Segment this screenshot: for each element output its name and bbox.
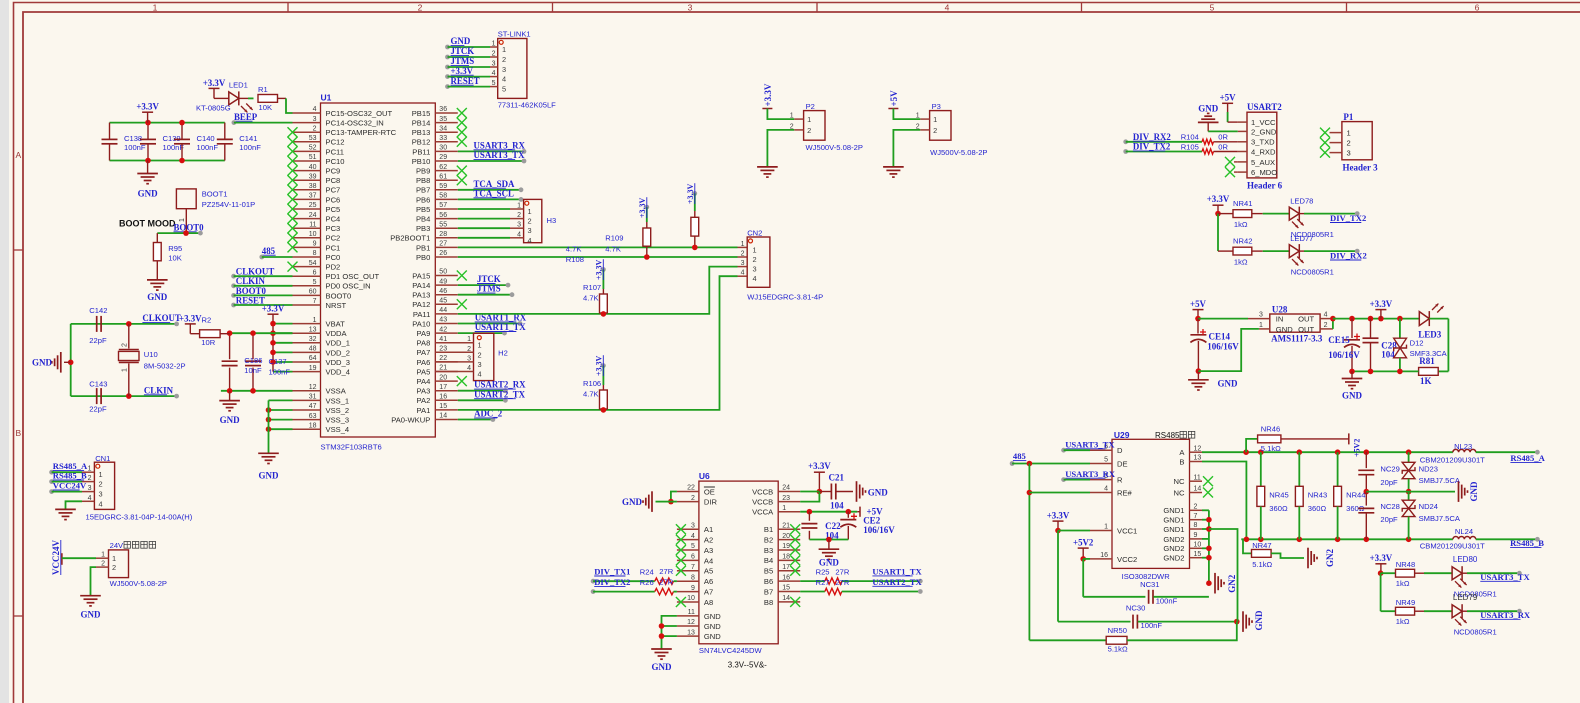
svg-text:15: 15 [439,403,447,410]
svg-text:R27: R27 [816,578,830,587]
svg-text:+3.3V: +3.3V [262,304,285,314]
svg-text:1_VCC: 1_VCC [1251,118,1276,127]
svg-text:PB15: PB15 [412,109,431,118]
svg-text:NC30: NC30 [1126,603,1145,612]
svg-text:GND1: GND1 [1163,525,1184,534]
svg-text:24: 24 [309,212,317,219]
svg-text:+3.3V: +3.3V [1370,299,1393,309]
svg-text:GND: GND [1342,391,1363,401]
svg-text:14: 14 [782,595,790,602]
svg-text:CLKIN: CLKIN [144,385,174,395]
svg-text:NR42: NR42 [1233,237,1252,246]
svg-text:GND2: GND2 [1163,544,1184,553]
svg-text:10K: 10K [168,254,182,263]
svg-text:PC0: PC0 [326,253,341,262]
svg-text:44: 44 [439,307,447,314]
svg-text:B6: B6 [764,577,773,586]
svg-text:7: 7 [1194,513,1198,520]
svg-text:GND: GND [1218,379,1239,389]
svg-text:4: 4 [313,106,317,113]
svg-text:30: 30 [439,145,447,152]
svg-text:21: 21 [782,522,790,529]
svg-text:1: 1 [782,505,786,512]
svg-text:61: 61 [439,173,447,180]
svg-text:TCA_SDA: TCA_SDA [474,179,516,189]
svg-text:3: 3 [492,61,496,68]
svg-text:4: 4 [478,370,482,379]
svg-text:PC4: PC4 [326,215,341,224]
svg-text:39: 39 [309,173,317,180]
svg-text:100nF: 100nF [269,367,291,376]
svg-text:17: 17 [439,384,447,391]
svg-text:1: 1 [1347,129,1351,138]
svg-text:A5: A5 [704,567,713,576]
svg-text:4: 4 [945,2,950,12]
svg-text:GND: GND [1276,325,1293,334]
svg-text:3_TXD: 3_TXD [1251,138,1275,147]
svg-text:A: A [15,150,21,160]
svg-text:VDD_4: VDD_4 [326,368,350,377]
svg-text:GND: GND [451,36,471,46]
svg-text:PB3: PB3 [416,224,430,233]
svg-text:2: 2 [502,55,506,64]
svg-text:11: 11 [688,609,695,616]
svg-text:485: 485 [262,246,276,256]
svg-text:OE: OE [704,487,715,496]
svg-text:4: 4 [88,495,92,502]
svg-text:+3.3V: +3.3V [1047,510,1070,520]
svg-text:25: 25 [309,202,317,209]
svg-text:NC31: NC31 [1140,580,1159,589]
svg-text:PD2: PD2 [326,263,341,272]
svg-text:14: 14 [439,413,447,420]
svg-text:RS485_B: RS485_B [1510,538,1544,548]
svg-text:U1: U1 [321,93,332,103]
svg-text:BEEP: BEEP [234,112,258,122]
svg-text:4.7K: 4.7K [605,244,621,253]
svg-text:PA14: PA14 [412,281,430,290]
svg-text:LED79: LED79 [1453,593,1478,602]
svg-text:GND: GND [1469,481,1479,502]
svg-text:PC1: PC1 [326,243,341,252]
svg-text:VSS_2: VSS_2 [326,406,350,415]
svg-text:PA8: PA8 [417,339,431,348]
svg-text:BOOT0: BOOT0 [326,291,352,300]
svg-text:GND: GND [32,358,53,368]
svg-text:PB2BOOT1: PB2BOOT1 [390,234,430,243]
svg-text:JTCK: JTCK [451,46,475,56]
svg-text:PA2: PA2 [417,396,431,405]
svg-text:CN2: CN2 [747,229,762,238]
svg-text:+3.3V: +3.3V [595,259,604,280]
svg-text:GND: GND [704,622,721,631]
svg-text:GND1: GND1 [1163,516,1184,525]
svg-text:VBAT: VBAT [326,320,346,329]
svg-text:57: 57 [439,202,447,209]
svg-text:R95: R95 [168,244,182,253]
svg-text:GND: GND [81,610,102,620]
svg-text:RESET: RESET [236,295,265,305]
svg-text:1: 1 [933,115,937,124]
svg-text:BOOT MOOD: BOOT MOOD [119,218,176,228]
svg-text:CLKOUT: CLKOUT [142,313,181,323]
svg-text:5_AUX: 5_AUX [1251,158,1275,167]
svg-text:360Ω: 360Ω [1269,504,1288,513]
svg-text:VCCB: VCCB [752,498,773,507]
svg-text:10: 10 [309,231,317,238]
svg-text:1: 1 [753,245,757,254]
svg-text:VCCB: VCCB [752,487,773,496]
svg-text:PA12: PA12 [412,300,430,309]
svg-text:10K: 10K [259,103,273,112]
svg-text:NCD0805R1: NCD0805R1 [1454,627,1497,636]
svg-text:GND: GND [259,471,280,481]
svg-text:2: 2 [418,2,423,12]
svg-text:B8: B8 [764,598,773,607]
svg-text:PB0: PB0 [416,253,430,262]
svg-text:+3.3V: +3.3V [451,66,474,76]
svg-text:2: 2 [99,480,103,489]
svg-text:4: 4 [467,365,471,372]
svg-text:GN2: GN2 [1227,574,1237,593]
svg-text:P1: P1 [1343,112,1353,122]
svg-text:GND: GND [652,662,673,672]
svg-text:20pF: 20pF [1380,515,1398,524]
svg-text:BOOT1: BOOT1 [202,189,228,198]
svg-text:B5: B5 [764,567,773,576]
svg-text:4: 4 [502,75,506,84]
svg-text:GND: GND [138,188,159,198]
svg-text:2: 2 [517,212,521,219]
svg-text:49: 49 [439,278,447,285]
svg-text:GND: GND [704,632,721,641]
svg-text:VSS_4: VSS_4 [326,425,350,434]
svg-text:A1: A1 [704,525,713,534]
svg-text:50: 50 [439,269,447,276]
svg-text:55: 55 [439,221,447,228]
svg-text:VDD_1: VDD_1 [326,339,350,348]
svg-text:OUT: OUT [1298,315,1314,324]
svg-text:PA9: PA9 [417,329,431,338]
svg-text:U28: U28 [1272,304,1288,314]
svg-text:1: 1 [1259,322,1263,329]
svg-text:CE14: CE14 [1209,332,1231,342]
svg-text:GND: GND [704,612,721,621]
svg-text:PA0-WKUP: PA0-WKUP [391,415,430,424]
svg-text:+5V2: +5V2 [1353,439,1362,457]
svg-text:A2: A2 [704,536,713,545]
svg-text:Header 6: Header 6 [1247,181,1283,191]
svg-text:VDD_2: VDD_2 [326,348,350,357]
svg-text:5.1kΩ: 5.1kΩ [1261,444,1281,453]
svg-text:P3: P3 [932,102,941,111]
svg-text:PC13-TAMPER-RTC: PC13-TAMPER-RTC [326,128,397,137]
svg-text:15: 15 [782,585,790,592]
svg-text:+3.3V: +3.3V [203,78,226,88]
svg-text:PC9: PC9 [326,167,341,176]
svg-text:47: 47 [309,403,317,410]
svg-text:2: 2 [478,350,482,359]
svg-text:R105: R105 [1181,142,1199,151]
svg-text:PB9: PB9 [416,167,430,176]
svg-text:+3.3V: +3.3V [1370,553,1393,563]
svg-text:PC15-OSC32_OUT: PC15-OSC32_OUT [326,109,393,118]
svg-text:VCC2: VCC2 [1117,555,1137,564]
svg-text:10: 10 [1194,542,1202,549]
svg-text:VCCA: VCCA [752,508,774,517]
svg-text:40: 40 [309,164,317,171]
svg-text:5: 5 [313,279,317,286]
svg-text:NR48: NR48 [1396,560,1415,569]
svg-text:NR50: NR50 [1108,626,1127,635]
svg-text:+3.3V: +3.3V [179,313,202,323]
svg-text:NCD0805R1: NCD0805R1 [1291,267,1334,276]
svg-text:VCC1: VCC1 [1117,526,1137,535]
svg-text:STM32F103RBT6: STM32F103RBT6 [321,443,382,452]
svg-text:2: 2 [753,255,757,264]
svg-text:PA5: PA5 [417,367,431,376]
svg-text:PA13: PA13 [412,291,430,300]
svg-text:43: 43 [439,317,447,324]
svg-text:PA3: PA3 [417,387,431,396]
svg-text:60: 60 [309,289,317,296]
svg-text:12: 12 [1194,445,1202,452]
svg-text:2: 2 [1347,139,1351,148]
svg-text:JTMS: JTMS [477,284,501,294]
svg-text:P2: P2 [806,102,815,111]
svg-text:4: 4 [691,533,695,540]
svg-text:GND: GND [868,487,889,497]
svg-text:6_MDO: 6_MDO [1251,168,1277,177]
svg-text:51: 51 [309,154,317,161]
svg-text:0R: 0R [1218,133,1228,142]
svg-text:4: 4 [528,236,532,245]
svg-text:3: 3 [691,522,695,529]
svg-text:100nF: 100nF [197,143,219,152]
svg-text:AMS1117-3.3: AMS1117-3.3 [1271,334,1323,344]
svg-text:22pF: 22pF [89,405,107,414]
svg-text:PC2: PC2 [326,234,341,243]
svg-text:48: 48 [309,346,317,353]
svg-text:SMBJ7.5CA: SMBJ7.5CA [1419,514,1461,523]
svg-text:12: 12 [687,619,695,626]
svg-text:2: 2 [1324,322,1328,329]
svg-text:21: 21 [439,365,447,372]
svg-text:2: 2 [741,251,745,258]
svg-text:GND: GND [819,558,840,568]
svg-text:15EDGRC-3.81-04P-14-00A(H): 15EDGRC-3.81-04P-14-00A(H) [86,512,193,521]
svg-text:+3.3V: +3.3V [763,83,773,106]
svg-text:A8: A8 [704,598,713,607]
svg-text:3: 3 [1259,312,1263,319]
svg-text:CBM201209U301T: CBM201209U301T [1420,542,1485,551]
svg-text:GND: GND [147,292,168,302]
svg-text:GND: GND [220,415,241,425]
svg-text:NR41: NR41 [1233,199,1252,208]
svg-text:2: 2 [1194,504,1198,511]
svg-text:B7: B7 [764,587,773,596]
svg-text:2: 2 [691,495,695,502]
svg-text:+3.3V: +3.3V [638,197,647,218]
svg-text:1: 1 [122,368,129,372]
svg-text:1: 1 [467,336,471,343]
svg-text:3: 3 [741,260,745,267]
svg-text:5: 5 [691,543,695,550]
svg-text:U29: U29 [1114,430,1130,440]
svg-text:NL23: NL23 [1454,442,1472,451]
svg-text:1: 1 [313,317,317,324]
svg-text:1kΩ: 1kΩ [1396,617,1410,626]
svg-text:DIV_RX2: DIV_RX2 [1330,251,1367,261]
svg-text:3: 3 [313,116,317,123]
svg-text:ND24: ND24 [1419,502,1438,511]
svg-text:4: 4 [741,270,745,277]
svg-text:NR47: NR47 [1252,541,1271,550]
svg-text:NRST: NRST [326,301,347,310]
svg-text:NC: NC [1174,477,1185,486]
svg-text:+5V: +5V [1220,93,1236,103]
svg-text:RS485_A: RS485_A [1510,453,1545,463]
svg-text:LED1: LED1 [229,80,248,89]
svg-text:USART3_TX: USART3_TX [1480,572,1530,582]
svg-text:10R: 10R [201,338,215,347]
svg-text:1: 1 [517,203,521,210]
svg-text:360Ω: 360Ω [1308,504,1327,513]
svg-text:PB11: PB11 [412,147,430,156]
svg-text:RS485_B: RS485_B [53,471,87,481]
svg-text:PA6: PA6 [417,358,431,367]
svg-text:4_RXD: 4_RXD [1251,147,1276,156]
svg-text:42: 42 [439,326,447,333]
svg-text:5: 5 [492,80,496,87]
svg-text:27R: 27R [659,577,673,586]
svg-text:10nF: 10nF [244,366,262,375]
svg-text:20pF: 20pF [1380,478,1398,487]
svg-text:DIV_TX2: DIV_TX2 [1133,142,1171,152]
svg-text:WJ15EDGRC-3.81-4P: WJ15EDGRC-3.81-4P [747,292,823,301]
svg-text:2: 2 [933,126,937,135]
svg-text:4: 4 [99,499,103,508]
svg-text:R1: R1 [258,85,268,94]
svg-text:WJ500V-5.08-2P: WJ500V-5.08-2P [806,143,863,152]
svg-text:+5V2: +5V2 [1073,537,1094,547]
svg-text:PB5: PB5 [416,205,430,214]
svg-text:DIV_TX1: DIV_TX1 [594,567,630,577]
svg-text:WJ500V-5.08-2P: WJ500V-5.08-2P [930,148,987,157]
svg-text:33: 33 [439,135,447,142]
svg-text:27R: 27R [835,568,849,577]
svg-text:Header 3: Header 3 [1343,163,1379,173]
svg-text:1: 1 [790,113,794,120]
svg-text:D: D [1117,446,1123,455]
svg-text:DIV_RX2: DIV_RX2 [1133,132,1172,142]
svg-text:R26: R26 [640,578,654,587]
svg-text:11: 11 [1194,474,1201,481]
svg-text:R24: R24 [640,568,654,577]
svg-text:52: 52 [309,145,317,152]
svg-text:PC6: PC6 [326,195,341,204]
svg-text:C142: C142 [89,306,107,315]
svg-text:CBM201209U301T: CBM201209U301T [1420,455,1485,464]
svg-text:2: 2 [467,346,471,353]
svg-text:3: 3 [1347,149,1351,158]
svg-text:PB1: PB1 [416,243,430,252]
svg-text:2: 2 [88,475,92,482]
svg-text:USART2_TX: USART2_TX [474,389,526,399]
svg-text:22pF: 22pF [89,336,107,345]
svg-text:PC10: PC10 [326,157,345,166]
svg-text:R106: R106 [583,379,601,388]
svg-text:77311-462K05LF: 77311-462K05LF [498,101,556,110]
svg-text:41: 41 [439,336,447,343]
svg-text:USART3_RX: USART3_RX [1480,610,1531,620]
svg-text:8: 8 [313,250,317,257]
svg-text:USART1_TX: USART1_TX [475,322,527,332]
svg-text:6: 6 [313,269,317,276]
svg-text:PC11: PC11 [326,147,344,156]
svg-text:17: 17 [782,564,790,571]
svg-text:VSS_3: VSS_3 [326,416,350,425]
svg-text:1: 1 [88,466,92,473]
svg-text:PC3: PC3 [326,224,341,233]
svg-text:USART2: USART2 [1247,102,1282,112]
svg-text:29: 29 [439,154,447,161]
svg-text:4: 4 [517,231,521,238]
svg-text:1kΩ: 1kΩ [1234,258,1248,267]
svg-text:PB10: PB10 [412,157,431,166]
svg-text:PC5: PC5 [326,205,341,214]
svg-text:20: 20 [782,533,790,540]
svg-text:PZ254V-11-01P: PZ254V-11-01P [202,200,255,209]
svg-text:22: 22 [687,485,695,492]
svg-text:PB13: PB13 [412,128,431,137]
svg-text:C22: C22 [825,521,841,531]
svg-text:PB12: PB12 [412,138,431,147]
svg-text:2: 2 [528,217,532,226]
svg-text:PB6: PB6 [416,195,430,204]
svg-text:TCA_SCL: TCA_SCL [474,188,515,198]
svg-text:R104: R104 [1181,133,1199,142]
svg-text:C186: C186 [244,356,262,365]
svg-text:PB14: PB14 [412,119,431,128]
svg-text:PA11: PA11 [413,310,430,319]
svg-text:32: 32 [309,336,317,343]
svg-text:R2: R2 [202,316,212,325]
svg-text:VDD_3: VDD_3 [326,358,350,367]
svg-text:100nF: 100nF [1141,621,1163,630]
svg-text:H3: H3 [547,216,557,225]
svg-text:RE#: RE# [1117,488,1133,497]
svg-text:GN2: GN2 [1325,549,1335,568]
svg-text:GND: GND [622,497,643,507]
svg-text:63: 63 [309,413,317,420]
svg-text:4.7K: 4.7K [583,390,599,399]
svg-text:3: 3 [528,226,532,235]
svg-text:1: 1 [528,207,532,216]
svg-text:SN74LVC4245DW: SN74LVC4245DW [699,646,763,655]
svg-text:GND: GND [1254,610,1264,631]
svg-text:PB4: PB4 [416,215,430,224]
svg-text:JTMS: JTMS [451,56,475,66]
svg-text:1: 1 [1104,524,1108,531]
svg-text:NR43: NR43 [1308,491,1327,500]
svg-text:24V: 24V [110,541,124,550]
svg-text:1kΩ: 1kΩ [1234,220,1248,229]
svg-text:16: 16 [439,394,447,401]
svg-text:A4: A4 [704,556,713,565]
svg-text:R108: R108 [566,255,584,264]
svg-text:59: 59 [439,183,447,190]
